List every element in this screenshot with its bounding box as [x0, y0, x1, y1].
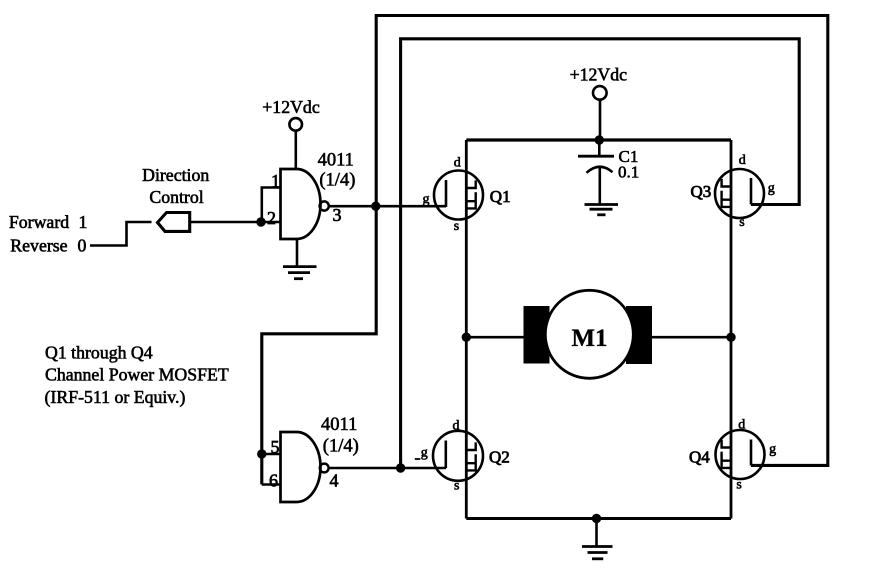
svg-text:Control: Control [149, 187, 203, 207]
svg-text:0.1: 0.1 [618, 163, 639, 182]
svg-text:Q1 through Q4: Q1 through Q4 [45, 342, 153, 362]
svg-text:Q1: Q1 [490, 187, 511, 206]
svg-text:1: 1 [79, 212, 88, 232]
svg-text:6: 6 [269, 471, 278, 491]
svg-text:(IRF-511 or Equiv.): (IRF-511 or Equiv.) [45, 387, 186, 408]
svg-text:+12Vdc: +12Vdc [262, 97, 320, 117]
svg-text:+12Vdc: +12Vdc [570, 64, 628, 84]
svg-text:d: d [453, 419, 460, 434]
svg-text:Reverse: Reverse [10, 236, 67, 256]
svg-text:s: s [736, 478, 741, 493]
svg-text:4011: 4011 [318, 150, 354, 170]
svg-text:1: 1 [271, 171, 280, 191]
svg-text:(1/4): (1/4) [323, 436, 359, 456]
svg-text:Q4: Q4 [689, 448, 710, 467]
svg-text:g: g [769, 442, 776, 457]
svg-text:5: 5 [271, 437, 280, 457]
svg-text:Forward: Forward [9, 212, 69, 232]
svg-text:d: d [738, 418, 745, 433]
svg-text:Q2: Q2 [489, 448, 510, 467]
svg-text:s: s [454, 219, 459, 234]
svg-text:s: s [739, 215, 744, 230]
svg-text:d: d [739, 153, 746, 168]
svg-text:4: 4 [330, 471, 339, 491]
svg-text:M1: M1 [571, 325, 607, 352]
svg-text:Q3: Q3 [691, 182, 712, 201]
svg-text:3: 3 [333, 205, 342, 225]
svg-text:g: g [421, 446, 428, 461]
svg-text:g: g [423, 192, 430, 207]
svg-text:2: 2 [267, 208, 276, 228]
svg-text:0: 0 [78, 236, 87, 256]
svg-text:Direction: Direction [142, 165, 209, 185]
svg-text:d: d [454, 156, 461, 171]
svg-text:4011: 4011 [321, 415, 357, 435]
svg-text:s: s [454, 479, 459, 494]
svg-text:(1/4): (1/4) [319, 170, 355, 190]
svg-text:g: g [768, 181, 775, 196]
svg-text:Channel Power MOSFET: Channel Power MOSFET [45, 365, 229, 385]
